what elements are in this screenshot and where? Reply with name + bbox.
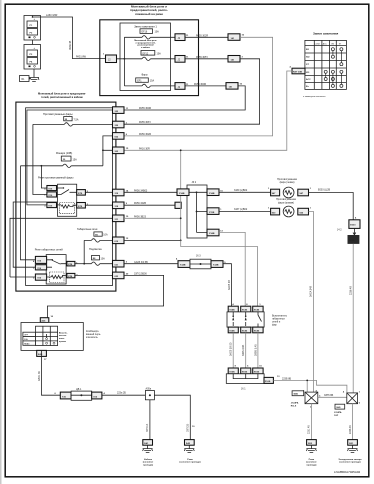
connector 602 row C: [113, 133, 125, 140]
ground G1: [147, 445, 149, 448]
svg-text:EF16: EF16: [142, 31, 148, 34]
svg-text:15A: 15A: [150, 80, 155, 83]
wire lamps fuse branch to relay1 t1: [41, 166, 47, 188]
svg-text:ЦВ 1: ЦВ 1: [76, 388, 82, 391]
svg-text:PA56 302R: PA56 302R: [139, 133, 151, 136]
svg-text:Противотуманные фары: Противотуманные фары: [43, 112, 73, 116]
svg-text:X7B: X7B: [68, 276, 73, 278]
svg-text:PA55 300R: PA55 300R: [194, 83, 206, 86]
svg-text:J4 2: J4 2: [337, 229, 342, 232]
connector H1 row1: [228, 34, 240, 41]
svg-text:X7B: X7B: [68, 264, 73, 266]
svg-text:Выклю-: Выклю-: [59, 332, 68, 334]
connector 623: [113, 272, 125, 279]
wire row1 to cabin row C: [124, 37, 273, 136]
svg-text:А05а: А05а: [146, 387, 152, 390]
svg-text:10A: 10A: [101, 257, 106, 260]
svg-text:фар: фар: [272, 323, 277, 326]
svg-text:ЗЗТ6 8Б: ЗЗТ6 8Б: [324, 394, 334, 397]
wire relay K2 t2 feed: [13, 202, 57, 267]
ground G4: [352, 445, 354, 448]
svg-text:X14B: X14B: [213, 264, 219, 267]
svg-text:J/C4PA: J/C4PA: [291, 402, 299, 405]
wire fog fuse to relay1 t2: [33, 124, 47, 194]
wire row 318 to terminator: [124, 204, 175, 206]
svg-text:Реле противотуманной фары: Реле противотуманной фары: [38, 175, 73, 179]
svg-text:223Б 8Б: 223Б 8Б: [282, 377, 292, 380]
fuse EF1 row 3 (headlamps): [124, 74, 175, 88]
connector 621: [113, 260, 125, 267]
svg-text:(силовые провода): (силовые провода): [180, 462, 201, 464]
svg-text:15A: 15A: [73, 158, 78, 161]
svg-text:Реле габаритных огней: Реле габаритных огней: [35, 247, 64, 251]
svg-text:Рама: Рама: [187, 459, 193, 461]
inline connector CB1 right: [92, 392, 102, 399]
splice A05a: [145, 391, 154, 400]
wire relay K1 out 5 (row 319): [85, 191, 112, 193]
wire right fog lamp ground (long): [309, 212, 314, 393]
connector label box E1: [20, 76, 30, 82]
fuse F25 fog (front): [33, 112, 113, 126]
svg-text:X16Б: X16Б: [242, 372, 248, 374]
cabin fuse box outer: [16, 102, 116, 291]
connector G4: [348, 440, 358, 446]
svg-text:ЗЗП 1Б: ЗЗП 1Б: [146, 423, 149, 432]
junction J4-2 lower box: [348, 235, 360, 244]
relay K2 (parking lamp relay): [33, 255, 78, 284]
wire row3 to cabin row A: [124, 86, 245, 110]
fuse F30 lamps: [21, 151, 103, 167]
svg-text:3ACA 34B: 3ACA 34B: [310, 286, 313, 297]
svg-text:Б4Б: Б4Б: [294, 393, 299, 396]
svg-text:J6 2: J6 2: [192, 181, 197, 184]
connector 303 row D: [113, 147, 125, 154]
inner fuse block: [120, 23, 171, 91]
svg-text:RG-S: RG-S: [291, 406, 297, 408]
wire row 319 to J6: [124, 191, 177, 193]
svg-text:X14Б: X14Б: [229, 330, 235, 333]
junction J6-1 connectors: [228, 368, 238, 374]
lamp switch S2 (parking/head): [227, 306, 264, 333]
connector G1: [143, 440, 153, 446]
battery B1: [24, 16, 41, 41]
connector 318: [113, 202, 125, 209]
svg-text:J6 3: J6 3: [196, 255, 201, 258]
svg-text:X14Б: X14Б: [254, 330, 260, 333]
svg-text:X16Б: X16Б: [229, 372, 235, 374]
wire comp2 to ground G4: [352, 404, 354, 440]
connector H3 row3: [226, 83, 238, 90]
connector 320 row B: [113, 121, 125, 128]
wire battery B2 to ground: [33, 69, 35, 78]
connector G3: [307, 440, 317, 446]
ground G2: [188, 445, 190, 448]
fuse EF12 row 2: [124, 51, 175, 61]
svg-text:3437 (L)B02: 3437 (L)B02: [234, 208, 248, 211]
svg-text:2231 4Б: 2231 4Б: [308, 425, 311, 434]
svg-text:Замок зажигания: Замок зажигания: [313, 32, 339, 36]
connector 323 row A: [113, 107, 125, 114]
wire row3 PA55 300R: [185, 85, 226, 87]
relay K1 (fog lamp relay): [44, 184, 89, 216]
wire rows C/D to lamps fuse: [103, 136, 113, 166]
connector G2: [185, 440, 195, 446]
junction connector comp2: [343, 390, 361, 404]
light switch S1 (exterior lighting): [21, 323, 83, 351]
svg-text:3ACB 3B-20: 3ACB 3B-20: [230, 342, 233, 356]
svg-text:X14Б: X14Б: [254, 309, 260, 312]
svg-text:PA51 8W: PA51 8W: [76, 56, 87, 59]
svg-text:HEAD: HEAD: [24, 342, 30, 345]
svg-text:X14Б: X14Б: [242, 309, 248, 312]
svg-text:PA56 3B23: PA56 3B23: [134, 215, 147, 218]
wire row 311 (relay2 t3 feed): [10, 218, 113, 277]
wire row1 PA55 302R: [185, 36, 228, 38]
svg-text:в кабине: в кабине: [141, 46, 151, 49]
svg-text:(силовые: (силовые: [143, 462, 154, 464]
svg-text:PA55 300R: PA55 300R: [139, 107, 151, 110]
wire splice branch down to ground G1: [149, 400, 151, 440]
wire ignition B1 to cabin row D: [124, 71, 292, 150]
cabin fuse box inner: [26, 108, 113, 286]
svg-text:Б2В: Б2В: [38, 354, 43, 356]
svg-text:J/C4PA: J/C4PA: [334, 411, 342, 414]
wire left fog lamp ground: [309, 193, 354, 220]
svg-text:LOCK: LOCK: [315, 43, 321, 45]
svg-text:Кабина: Кабина: [144, 458, 153, 461]
light switch feed connector A26: [40, 318, 49, 323]
svg-text:(силовые провода): (силовые провода): [340, 462, 361, 464]
svg-text:300Б-0,8Б: 300Б-0,8Б: [242, 344, 245, 356]
wire J6 pin1 to right fog lamp: [219, 211, 271, 213]
svg-text:Фары: Фары: [141, 74, 147, 77]
svg-text:провода): провода): [143, 464, 153, 466]
connector J2 output row3: [175, 83, 185, 90]
svg-text:АВО1 3Б: АВО1 3Б: [38, 371, 41, 381]
wire comp1 to comp2: [318, 396, 347, 398]
svg-text:1UP: 1UP: [334, 415, 339, 417]
svg-text:PA56 342B: PA56 342B: [134, 202, 146, 205]
svg-text:PA56 34B03: PA56 34B03: [134, 189, 148, 192]
JC comp1 label box: [292, 391, 304, 396]
svg-text:X11B: X11B: [209, 212, 215, 214]
svg-text:осве-: осве-: [59, 338, 65, 340]
connector 319: [113, 189, 125, 196]
svg-text:Холодильная камера: Холодильная камера: [339, 459, 363, 461]
svg-text:щения: щения: [59, 341, 67, 343]
svg-text:X16Б: X16Б: [254, 372, 260, 374]
svg-text:10A: 10A: [103, 234, 108, 237]
svg-text:Габаритные огни: Габаритные огни: [77, 227, 98, 231]
connector J2 output row2: [175, 56, 185, 63]
wire bottom row to splice A05: [102, 394, 145, 396]
wire J6 pin13 to switch block mid: [219, 232, 245, 306]
svg-text:X14B: X14B: [179, 192, 185, 195]
svg-text:10A: 10A: [155, 31, 160, 34]
svg-text:EF1: EF1: [137, 80, 142, 83]
wire splice to ground G2: [154, 395, 190, 439]
svg-text:фара (правая): фара (правая): [278, 201, 294, 204]
connector J6-1 out: [264, 377, 273, 383]
wire relay K2 out1 to fuse bus: [75, 263, 84, 265]
svg-text:X7B: X7B: [78, 193, 83, 195]
svg-text:провода): провода): [306, 464, 316, 466]
svg-text:2236 4Б: 2236 4Б: [349, 425, 352, 434]
svg-text:фара (левая): фара (левая): [280, 181, 295, 184]
JC comp2 label box: [335, 404, 345, 409]
svg-text:X14B: X14B: [209, 192, 215, 195]
wire battery interconnect: [32, 40, 34, 45]
svg-text:ложенный на раме: ложенный на раме: [135, 12, 163, 16]
wire J6-1 out to JC comp1/comp2: [273, 380, 347, 393]
wire row 311 to row 610: [124, 150, 181, 240]
inline connector CB1 left: [60, 392, 71, 399]
svg-text:(силовые: (силовые: [306, 462, 317, 464]
connector H2 row2: [228, 56, 240, 63]
svg-text:E003: E003: [350, 224, 356, 226]
svg-text:Звено зажигания 1: Звено зажигания 1: [134, 24, 157, 28]
wire row 621 to J6-3: [124, 263, 178, 265]
terminator X3: [175, 202, 181, 208]
splice CB1: [71, 391, 92, 400]
svg-text:223а 2Б: 223а 2Б: [117, 392, 126, 395]
svg-text:чатель: чатель: [59, 335, 67, 337]
ignition switch table: [305, 40, 347, 89]
svg-text:PA16 30R: PA16 30R: [139, 147, 150, 150]
connector J2 input: [106, 55, 117, 63]
wire comp1 to ground G3: [310, 404, 312, 440]
ignition switch contacts: [324, 48, 343, 88]
internal bus wire: [117, 37, 125, 86]
relay/fuse box U1 (frame mounted): [100, 20, 199, 96]
svg-text:J6 1: J6 1: [241, 388, 246, 391]
svg-text:X14B: X14B: [180, 264, 186, 267]
svg-text:о замкнутые контакты: о замкнутые контакты: [303, 96, 326, 98]
junction bar J6-1: [226, 374, 264, 384]
svg-text:2236 4B: 2236 4B: [349, 286, 352, 295]
svg-text:E003 (L)2B: E003 (L)2B: [318, 189, 330, 192]
wire row A internal (feeds relay1 t3): [27, 110, 113, 205]
ground G3: [310, 445, 312, 448]
svg-text:ЗЗП 2Б: ЗЗП 2Б: [187, 423, 190, 432]
wire J6 pin15 to left fog lamp: [219, 191, 271, 193]
fuse EF16 row 1: [124, 29, 175, 39]
wire relay K2 coil out (row 623): [75, 274, 113, 276]
svg-text:KET 30B: KET 30B: [293, 72, 302, 74]
light switch out connector B2B: [37, 350, 47, 356]
svg-text:PA36 3B: PA36 3B: [69, 40, 72, 50]
wires lamp switch down: [232, 333, 234, 368]
fuse E8 illumination: [83, 240, 112, 265]
svg-text:7,5A: 7,5A: [74, 118, 79, 121]
wire lamps fuse to relay2 t1: [21, 166, 36, 260]
svg-text:X13B: X13B: [349, 240, 355, 242]
connector 610: [113, 237, 125, 244]
svg-text:3430 (L)B02: 3430 (L)B02: [234, 189, 248, 192]
battery B2: [24, 45, 41, 70]
svg-text:ACC: ACC: [306, 78, 311, 81]
svg-text:10A: 10A: [157, 52, 162, 55]
wire battery B1 positive feed: [33, 16, 106, 59]
junction splice J6-3: [176, 258, 226, 269]
ground E1 (battery): [29, 78, 39, 82]
wire row 610 to switch block right: [124, 239, 181, 241]
svg-text:3BBБ 3,4Б: 3BBБ 3,4Б: [254, 344, 257, 356]
wire light switch to bottom row: [42, 350, 61, 395]
svg-text:X14B: X14B: [209, 232, 215, 235]
svg-text:X14Б: X14Б: [242, 330, 248, 333]
svg-text:PA55 302R: PA55 302R: [196, 34, 208, 37]
junction connector comp1: [303, 389, 321, 408]
fuse E6 parking lamps: [77, 227, 113, 242]
connector KET ignition IG1: [292, 68, 305, 74]
right fog lamp E2: [268, 206, 312, 217]
svg-text:X7B: X7B: [78, 206, 83, 208]
wire row 623 to light switch: [47, 275, 163, 317]
svg-text:Рама: Рама: [309, 459, 315, 461]
junction block J6-2: [177, 185, 224, 238]
wire J4-2 down to JC comp2: [352, 244, 354, 393]
svg-text:LNA85DIA7025A02: LNA85DIA7025A02: [334, 470, 361, 474]
left fog lamp E1: [268, 187, 312, 198]
wire J6-3 to switch block left: [223, 264, 231, 307]
svg-text:телей, расположенный в кабине: телей, расположенный в кабине: [41, 95, 83, 99]
svg-text:X16Б: X16Б: [265, 381, 271, 383]
wire row2 PA55 305Y: [185, 58, 228, 60]
junction J4-2 arrow: [353, 228, 356, 234]
wire relay K1 out 2 (row 318): [85, 204, 112, 206]
svg-text:X14Б: X14Б: [229, 309, 235, 312]
svg-text:Фонари (10В): Фонари (10В): [56, 151, 72, 155]
svg-text:PA55 306Y: PA55 306Y: [139, 121, 151, 124]
connector 311: [113, 215, 125, 222]
svg-text:ключатель: ключатель: [86, 336, 98, 339]
connector J2 output row1: [175, 34, 185, 41]
svg-text:3ACB 3B: 3ACB 3B: [228, 280, 231, 290]
svg-text:Подсветка: Подсветка: [89, 247, 102, 251]
svg-text:EF12: EF12: [143, 52, 149, 55]
wire row2 to cabin row B: [124, 59, 260, 124]
svg-text:ACC: ACC: [323, 42, 328, 45]
svg-text:LA60 3/0R: LA60 3/0R: [46, 14, 58, 17]
svg-text:PA55 305Y: PA55 305Y: [196, 56, 208, 59]
